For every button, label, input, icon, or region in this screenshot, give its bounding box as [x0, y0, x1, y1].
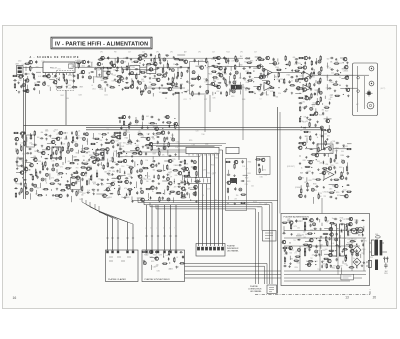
junction node [77, 163, 78, 164]
capacitor C698 [356, 249, 358, 253]
diode D680 [318, 240, 322, 242]
diode D646 [297, 239, 301, 241]
wire [243, 174, 248, 176]
svg-text:8k2: 8k2 [300, 130, 303, 132]
svg-text:10.7: 10.7 [128, 52, 131, 54]
wire [121, 66, 123, 69]
resistor R275 [303, 131, 309, 132]
wire [340, 57, 345, 59]
ground [326, 138, 328, 140]
capacitor C450 [120, 126, 122, 130]
transistor Q453 [154, 127, 158, 131]
resistor R340 [80, 151, 86, 152]
wire [181, 175, 183, 180]
svg-text:R198: R198 [253, 202, 257, 204]
resistor R628 [141, 251, 147, 252]
svg-text:T32: T32 [310, 258, 313, 260]
wire [295, 92, 301, 94]
capacitor C594 [305, 172, 309, 174]
svg-text:T19: T19 [53, 131, 56, 133]
svg-text:L127: L127 [204, 99, 207, 101]
svg-text:1k: 1k [46, 183, 48, 185]
svg-text:C233: C233 [21, 161, 25, 163]
wire [206, 83, 211, 85]
transistor Q324 [46, 146, 50, 150]
junction node [167, 92, 168, 93]
resistor R355 [112, 157, 113, 163]
diode D135 [184, 91, 188, 93]
svg-text:D386: D386 [335, 260, 339, 262]
capacitor C609 [306, 188, 308, 192]
diode D413 [14, 187, 18, 189]
resistor R98 [177, 71, 178, 77]
svg-text:0.01: 0.01 [146, 116, 149, 118]
wire [25, 66, 27, 71]
transformer T4 core bar C [375, 260, 378, 271]
IF can T206 [130, 66, 140, 75]
wire: keyboard harness 5 [132, 224, 134, 250]
svg-text:D211: D211 [150, 256, 153, 258]
svg-text:560: 560 [104, 172, 107, 174]
svg-text:1k: 1k [152, 191, 154, 193]
resistor R319 [105, 142, 111, 143]
resistor R544 [195, 191, 196, 197]
diode D156 [217, 72, 221, 74]
svg-text:D139: D139 [113, 70, 117, 72]
coil L479 [163, 146, 166, 149]
resistor R500 [167, 164, 168, 170]
wire: supply rail 3 [284, 245, 360, 247]
resistor R139 [213, 57, 219, 58]
transistor Q573 [298, 146, 302, 150]
capacitor C521 [130, 181, 132, 185]
ground [20, 164, 22, 166]
svg-text:R286: R286 [119, 156, 123, 158]
svg-text:T87: T87 [85, 176, 88, 178]
junction node [316, 238, 317, 239]
wire [119, 144, 121, 151]
ground [362, 234, 364, 236]
resistor R18 [63, 73, 64, 79]
wire [326, 117, 328, 123]
resistor R692 [304, 248, 305, 254]
capacitor C258 [299, 102, 303, 104]
resistor R597 [341, 171, 342, 177]
svg-text:T21: T21 [98, 134, 101, 136]
wire [154, 55, 156, 58]
coil L383 [45, 173, 48, 176]
wire: synth to supply 1 [185, 270, 281, 272]
ground [363, 261, 365, 263]
svg-text:68k: 68k [41, 132, 44, 134]
resistor R1 [12, 75, 18, 76]
svg-text:T231: T231 [125, 156, 128, 158]
resistor R204 [269, 87, 275, 88]
ground [142, 63, 144, 65]
svg-text:R277: R277 [322, 261, 326, 263]
wire [20, 144, 22, 147]
svg-text:C98: C98 [175, 194, 178, 196]
svg-text:T363: T363 [266, 95, 269, 97]
svg-text:C303: C303 [245, 184, 249, 186]
svg-text:D151: D151 [181, 161, 185, 163]
wire [146, 70, 154, 72]
resistor R172 [213, 85, 219, 86]
svg-text:L316: L316 [153, 152, 156, 154]
svg-text:2.2k: 2.2k [57, 175, 60, 177]
capacitor C636 [182, 255, 184, 259]
ground [341, 250, 343, 252]
svg-text:1N60: 1N60 [239, 65, 243, 67]
diode D145 [217, 63, 221, 65]
resistor R246 [318, 88, 319, 94]
ground [336, 69, 338, 71]
resistor R221 [297, 67, 303, 68]
capacitor C312 [34, 144, 38, 146]
transistor Q584 [308, 160, 312, 164]
resistor R384 [58, 173, 64, 174]
svg-text:C86: C86 [143, 71, 146, 73]
svg-text:L88: L88 [355, 222, 358, 224]
wire [114, 58, 116, 64]
capacitor C667 [314, 228, 318, 230]
wire [47, 142, 54, 144]
svg-text:D357: D357 [307, 186, 311, 188]
capacitor C61 [126, 77, 128, 81]
resistor R265 [309, 114, 315, 115]
wire [194, 180, 201, 182]
diode D465 [156, 136, 160, 138]
svg-text:CF1: CF1 [156, 52, 159, 54]
ground [187, 181, 189, 183]
ground [143, 260, 145, 262]
wire [91, 62, 93, 67]
junction node [114, 188, 115, 189]
ground [131, 200, 133, 202]
wire [319, 219, 321, 222]
wire [324, 96, 326, 99]
svg-text:T129: T129 [258, 90, 261, 92]
transistor Q60 [119, 77, 123, 81]
coil L46 [121, 61, 124, 64]
wire [119, 186, 121, 189]
resistor R473 [168, 142, 169, 148]
ground [162, 121, 164, 123]
wire [137, 197, 143, 199]
transformer T4 primary winding [371, 240, 374, 255]
resistor R73 [138, 55, 144, 56]
wire [363, 226, 365, 232]
transistor Q419 [66, 186, 70, 190]
wire [173, 179, 175, 184]
svg-text:T149: T149 [317, 161, 320, 163]
ground [342, 145, 344, 147]
svg-text:C292: C292 [145, 67, 149, 69]
ground [52, 194, 54, 196]
transistor Q248 [345, 88, 349, 92]
transistor Q645 [281, 240, 285, 244]
svg-text:L21: L21 [35, 84, 38, 86]
svg-text:L331: L331 [57, 68, 60, 70]
capacitor C198 [290, 76, 294, 78]
pilot jack b [357, 90, 360, 93]
svg-text:1N60: 1N60 [125, 138, 129, 140]
wire [324, 118, 332, 120]
resistor R164 [234, 74, 235, 80]
resistor R47 [133, 61, 139, 62]
wire [313, 197, 315, 204]
pilot jack a [357, 76, 360, 79]
junction node [339, 85, 340, 86]
svg-text:R126: R126 [38, 161, 42, 163]
transistor Q13 [25, 89, 29, 93]
resistor R121 [206, 58, 207, 64]
ground [37, 149, 39, 151]
svg-text:20: 20 [373, 296, 377, 300]
junction node [334, 190, 335, 191]
capacitor C332 [112, 145, 114, 149]
wire [150, 265, 152, 270]
svg-text:T335: T335 [70, 68, 73, 70]
junction node [315, 261, 316, 262]
coil L339 [67, 150, 70, 153]
svg-text:L123: L123 [224, 74, 227, 76]
transistor Q222 [302, 66, 306, 70]
wire [164, 190, 166, 195]
diode D292 [71, 131, 73, 135]
svg-text:R316: R316 [313, 184, 317, 186]
wire: led panel bundle 7 [222, 150, 224, 246]
svg-text:T134: T134 [298, 63, 301, 65]
svg-text:T169: T169 [43, 178, 46, 180]
svg-text:T383: T383 [314, 90, 317, 92]
resistor R136 [192, 91, 193, 97]
svg-text:FUS: FUS [375, 234, 378, 236]
ground [41, 145, 43, 147]
wire: panel inner vertical [357, 66, 359, 112]
resistor R232 [298, 78, 304, 79]
wire [25, 162, 31, 164]
transistor Q266 [314, 112, 318, 116]
capacitor C41 [125, 57, 129, 59]
svg-text:R96: R96 [112, 171, 115, 173]
wire [262, 165, 264, 171]
resistor R59 [116, 76, 122, 77]
junction node [343, 94, 344, 95]
ground [169, 192, 171, 194]
wire [38, 90, 40, 94]
svg-text:D323: D323 [345, 146, 349, 148]
resistor R526 [184, 180, 185, 186]
resistor R640 [282, 222, 288, 223]
junction node [214, 81, 215, 82]
resistor R688 [327, 241, 328, 247]
muting unit box [263, 231, 277, 242]
ground [361, 240, 363, 242]
capacitor C321 [117, 143, 119, 147]
svg-text:T219: T219 [112, 178, 115, 180]
wire: synth to corrector upper [185, 264, 267, 285]
junction node [169, 262, 170, 263]
resistor R183 [259, 59, 265, 60]
transistor Q233 [304, 78, 308, 82]
ground [49, 135, 51, 137]
wire [227, 58, 229, 64]
svg-text:L205: L205 [101, 71, 104, 73]
diode D216 [304, 61, 306, 65]
junction node [122, 81, 123, 82]
IC U8 flat package [226, 147, 239, 153]
power transistor Q101 [351, 228, 357, 234]
wire [135, 182, 137, 189]
capacitor C648 [289, 247, 291, 251]
resistor R518 [183, 175, 189, 176]
resistor R706 [308, 261, 314, 262]
wire [15, 148, 17, 152]
svg-text:D137: D137 [339, 266, 343, 268]
ground [321, 261, 323, 263]
wire [229, 89, 231, 95]
svg-text:C298: C298 [158, 254, 162, 256]
capacitor C711 [355, 261, 359, 263]
svg-text:L284: L284 [173, 94, 176, 96]
ground [319, 228, 321, 230]
resistor R571 [325, 140, 326, 146]
capacitor C463 [128, 139, 132, 141]
coil L328 [70, 148, 73, 151]
resistor R272 [309, 122, 310, 128]
resistor R429 [54, 195, 60, 196]
wire [188, 170, 190, 173]
svg-text:CF1: CF1 [170, 52, 173, 54]
junction node [278, 63, 279, 64]
ground [335, 80, 337, 82]
capacitor C3 [22, 74, 24, 78]
svg-text:D160: D160 [20, 68, 24, 70]
svg-text:R148: R148 [297, 262, 301, 264]
wire [150, 257, 158, 259]
resistor R497 [143, 168, 149, 169]
svg-text:T284: T284 [275, 97, 278, 99]
wire [361, 229, 363, 235]
diode D525 [177, 183, 181, 185]
capacitor C334 [26, 152, 30, 154]
transistor Q591 [327, 167, 331, 171]
wire [103, 70, 111, 72]
wire [277, 58, 279, 61]
svg-text:D295: D295 [297, 234, 301, 236]
resistor R257 [320, 96, 321, 102]
diode D189 [285, 64, 289, 66]
junction node [253, 71, 254, 72]
wire [305, 241, 312, 243]
wire: bus to stereo upper [86, 128, 321, 150]
transistor Q89 [148, 68, 152, 72]
capacitor C196 [267, 72, 269, 76]
wire [115, 80, 119, 82]
coil L577 [329, 147, 332, 150]
svg-text:T212: T212 [234, 80, 237, 82]
resistor R66 [132, 80, 133, 86]
coil L203 [295, 79, 298, 82]
ground [31, 72, 33, 74]
transistor Q270 [325, 119, 329, 123]
svg-text:L357: L357 [116, 140, 119, 142]
ground [93, 152, 95, 154]
ground [98, 74, 100, 76]
svg-text:R370: R370 [108, 175, 112, 177]
capacitor C39 [107, 56, 109, 60]
wire: synth to supply 2 [185, 274, 281, 276]
resistor R388 [96, 172, 97, 178]
capacitor C77 [166, 55, 170, 57]
svg-text:C134: C134 [297, 240, 301, 242]
ground [102, 66, 104, 68]
junction node [102, 137, 103, 138]
capacitor C280 [321, 135, 325, 137]
transistor Q641 [289, 221, 293, 225]
capacitor C682 [329, 237, 331, 241]
junction node [190, 200, 191, 201]
ground [139, 70, 141, 72]
ground [158, 162, 160, 164]
resistor R663 [345, 224, 351, 225]
svg-text:D253: D253 [128, 166, 132, 168]
svg-text:C273: C273 [339, 63, 343, 65]
svg-text:0.01: 0.01 [141, 79, 144, 81]
resistor R22 [66, 79, 67, 85]
junction node [174, 181, 175, 182]
resistor R8 [14, 83, 15, 89]
transistor Q434 [102, 194, 106, 198]
diode D336 [53, 151, 55, 155]
ground [174, 153, 176, 155]
wire [141, 122, 143, 129]
svg-text:T375: T375 [206, 81, 209, 83]
transistor Q471 [148, 142, 152, 146]
svg-text:D269: D269 [200, 60, 204, 62]
ground [30, 152, 32, 154]
svg-text:D361: D361 [260, 176, 264, 178]
resistor R670 [346, 225, 347, 231]
svg-text:4.7k: 4.7k [263, 170, 266, 172]
resistor R696 [342, 249, 348, 250]
resistor R710 [345, 256, 346, 262]
svg-text:470: 470 [174, 187, 177, 189]
wire [239, 90, 241, 94]
transistor Q509 [177, 171, 181, 175]
resistor R681 [326, 236, 327, 242]
svg-text:PLATINE CLAVIER: PLATINE CLAVIER [108, 278, 126, 281]
svg-text:L133: L133 [62, 144, 65, 146]
junction node [51, 189, 52, 190]
svg-text:D142: D142 [324, 266, 328, 268]
svg-text:L338: L338 [192, 145, 195, 147]
wire [360, 254, 362, 258]
resistor R385 [73, 172, 79, 173]
svg-text:CF1: CF1 [198, 52, 201, 54]
svg-text:560: 560 [36, 67, 39, 69]
wire [92, 133, 94, 139]
lamp symbol [366, 90, 373, 97]
svg-text:R312: R312 [115, 164, 119, 166]
capacitor C566 [258, 163, 260, 167]
diode D574 [309, 148, 313, 150]
svg-text:L385: L385 [304, 182, 307, 184]
wire [88, 178, 90, 184]
resistor R548 [159, 196, 160, 202]
svg-text:C161: C161 [301, 235, 305, 237]
